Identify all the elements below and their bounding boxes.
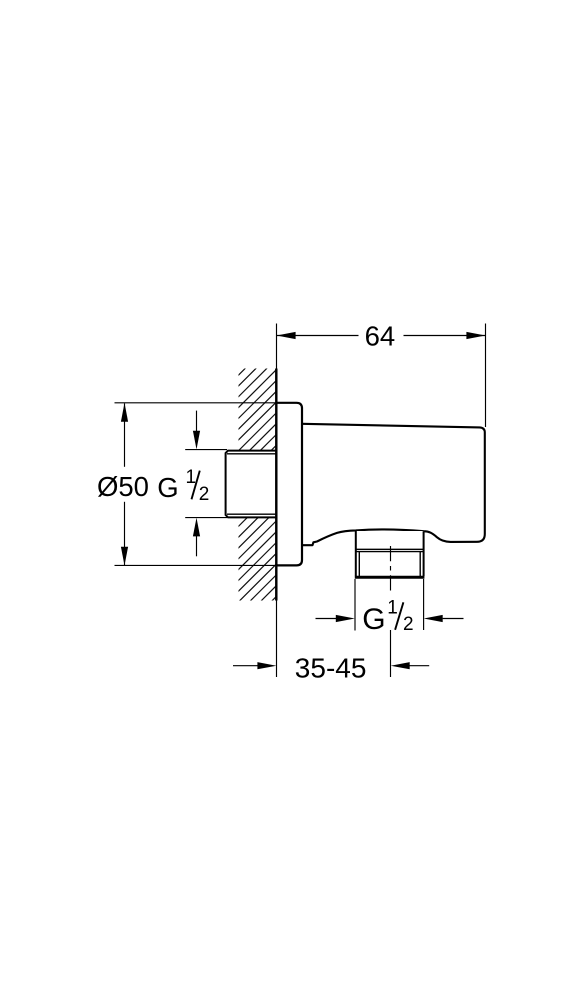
wall face line <box>275 369 277 601</box>
dimension Ø50 extension line bottom <box>115 564 278 566</box>
inlet thread small dimension arrows <box>185 411 227 557</box>
label G 1/2 (inlet) <box>157 467 209 505</box>
svg-text:2: 2 <box>403 614 414 635</box>
svg-text:1: 1 <box>387 597 398 618</box>
inlet connector G1/2 (behind wall) <box>226 451 277 518</box>
svg-text:1: 1 <box>186 467 197 488</box>
svg-text:G: G <box>157 472 178 503</box>
wall hatching <box>235 323 280 649</box>
svg-text:Ø50: Ø50 <box>97 471 149 502</box>
dimension G 1/2 (outlet) <box>316 579 464 636</box>
dimension Ø50 <box>97 403 149 566</box>
body outline <box>302 424 485 545</box>
svg-text:64: 64 <box>365 320 396 351</box>
dimension 35-45 <box>233 601 429 684</box>
svg-text:2: 2 <box>199 484 210 505</box>
flange (wall escutcheon) <box>276 403 302 566</box>
dimension Ø50 extension line top <box>115 402 278 404</box>
outlet thread G1/2 (bottom connector) <box>355 531 425 578</box>
centerline of outlet <box>390 546 392 594</box>
dimension 64 <box>277 320 486 427</box>
svg-text:G: G <box>362 603 385 636</box>
svg-text:35-45: 35-45 <box>295 652 367 683</box>
